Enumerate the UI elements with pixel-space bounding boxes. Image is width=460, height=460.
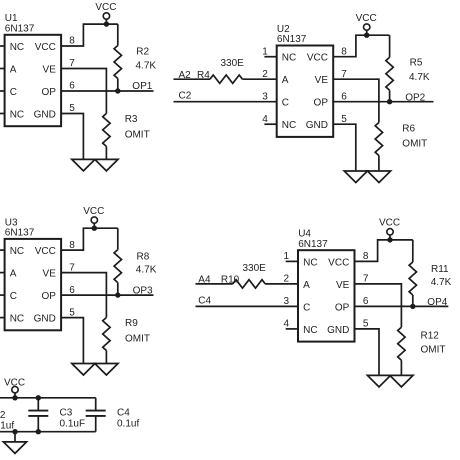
svg-text:6: 6 xyxy=(341,91,347,102)
svg-text:OP1: OP1 xyxy=(132,81,152,92)
wire pin 7 VE down (U1) xyxy=(61,69,106,114)
wire pin 6 OP4 net (U4) xyxy=(355,305,449,307)
svg-text:VE: VE xyxy=(43,269,57,280)
svg-text:NC: NC xyxy=(282,53,296,64)
wire to ground (caps) xyxy=(14,432,16,442)
svg-text:VCC: VCC xyxy=(328,257,349,268)
wire pin 5 to ground (U1) xyxy=(61,114,83,160)
wire pin 7 VE down (U4) xyxy=(355,284,402,327)
wire R6 to ground xyxy=(378,156,380,172)
svg-text:NC: NC xyxy=(10,109,24,120)
wire pin 8 to VCC rail (U2) xyxy=(333,35,389,57)
wire C4 input to pin 3 (U4) xyxy=(196,305,299,307)
svg-text:R6: R6 xyxy=(402,123,415,134)
wire pin 5 to ground (U4) xyxy=(355,329,380,376)
svg-text:A4: A4 xyxy=(198,275,211,286)
ground (R12) xyxy=(390,375,413,387)
wire GND rail (caps) xyxy=(0,431,96,433)
svg-text:8: 8 xyxy=(341,46,347,57)
ground (R3) xyxy=(95,159,118,171)
wire R3 to ground xyxy=(105,146,107,159)
svg-text:4.7K: 4.7K xyxy=(409,72,430,83)
junction R11/OP4 xyxy=(410,304,415,309)
wire VCC rail to R8 xyxy=(117,228,119,249)
svg-text:4.7K: 4.7K xyxy=(136,60,157,71)
svg-text:3: 3 xyxy=(262,91,268,102)
svg-text:C: C xyxy=(282,98,289,109)
optocoupler U4 6N137 body xyxy=(298,250,355,341)
power VCC symbol (U2) xyxy=(364,24,370,38)
svg-text:OP4: OP4 xyxy=(427,297,447,308)
wire R2 to OP1 node xyxy=(117,79,119,92)
svg-text:8: 8 xyxy=(363,251,369,262)
svg-text:R3: R3 xyxy=(125,114,138,125)
junction GND rail / ground xyxy=(12,429,17,434)
svg-text:GND: GND xyxy=(34,314,56,325)
capacitor C4 xyxy=(86,398,106,432)
resistor R2 body xyxy=(114,46,121,79)
svg-text:7: 7 xyxy=(363,274,369,285)
svg-text:6: 6 xyxy=(69,285,75,296)
svg-text:VCC: VCC xyxy=(83,206,104,217)
resistor R9 body xyxy=(103,318,110,351)
svg-text:OMIT: OMIT xyxy=(402,139,427,150)
resistor R10 body xyxy=(233,280,265,288)
wire pin 8 to VCC rail (U4) xyxy=(355,240,413,262)
wire R12 to ground xyxy=(400,360,402,375)
svg-text:330E: 330E xyxy=(243,263,267,274)
svg-text:A2: A2 xyxy=(179,70,192,81)
junction R5/OP2 xyxy=(387,99,392,104)
resistor R6 body xyxy=(375,123,382,156)
svg-text:VE: VE xyxy=(43,64,57,75)
svg-text:A: A xyxy=(10,269,17,280)
svg-text:R9: R9 xyxy=(125,318,138,329)
svg-text:7: 7 xyxy=(69,262,75,273)
wire R10 to pin 2 (U4) xyxy=(265,283,298,285)
svg-text:OMIT: OMIT xyxy=(125,333,150,344)
svg-text:2: 2 xyxy=(262,69,268,80)
svg-text:1: 1 xyxy=(284,251,290,262)
svg-text:C2: C2 xyxy=(0,410,6,421)
wire A4 input to R10 xyxy=(196,283,233,285)
svg-text:330E: 330E xyxy=(221,58,245,69)
svg-text:4.7K: 4.7K xyxy=(136,265,157,276)
power VCC symbol (U4) xyxy=(387,229,393,243)
svg-text:A: A xyxy=(303,280,310,291)
resistor R5 body xyxy=(386,57,393,90)
svg-text:0.1uf: 0.1uf xyxy=(117,419,139,430)
svg-text:C: C xyxy=(10,291,17,302)
junction R2/OP1 xyxy=(115,88,120,93)
svg-text:GND: GND xyxy=(34,109,56,120)
svg-text:7: 7 xyxy=(69,58,75,69)
wire pin 8 to VCC rail (U3) xyxy=(61,228,118,250)
power VCC symbol (caps) xyxy=(12,387,18,401)
svg-text:VCC: VCC xyxy=(35,42,56,53)
svg-text:C3: C3 xyxy=(60,408,73,419)
svg-text:C2: C2 xyxy=(179,91,192,102)
wire VCC rail to R5 xyxy=(389,35,391,57)
svg-text:5: 5 xyxy=(69,103,75,114)
svg-text:R2: R2 xyxy=(136,47,149,58)
svg-text:GND: GND xyxy=(306,120,328,131)
svg-text:VE: VE xyxy=(336,280,350,291)
svg-text:VCC: VCC xyxy=(379,218,400,229)
svg-text:6N137: 6N137 xyxy=(277,34,307,45)
wire pin 7 VE down (U3) xyxy=(61,273,106,318)
wire A2 input to R4 xyxy=(174,78,211,80)
svg-text:NC: NC xyxy=(282,120,296,131)
svg-text:8: 8 xyxy=(69,240,75,251)
svg-text:A: A xyxy=(10,64,17,75)
wire pin 1 stub (U3) xyxy=(0,249,5,251)
svg-text:GND: GND xyxy=(327,325,349,336)
wire VCC rail to R2 xyxy=(117,24,119,45)
optocoupler U2 6N137 body xyxy=(277,46,334,137)
wire pin 4 stub (U1) xyxy=(0,113,5,115)
wire pin 5 to ground (U3) xyxy=(61,318,83,364)
svg-text:3: 3 xyxy=(284,296,290,307)
svg-text:R11: R11 xyxy=(431,264,449,275)
svg-text:NC: NC xyxy=(303,257,317,268)
ground (caps) xyxy=(3,442,26,454)
svg-text:VCC: VCC xyxy=(356,13,377,24)
svg-text:4.7K: 4.7K xyxy=(431,277,452,288)
svg-text:OP: OP xyxy=(314,98,329,109)
svg-text:4: 4 xyxy=(284,319,290,330)
wire pin 3 stub (U3) xyxy=(0,294,5,296)
svg-text:NC: NC xyxy=(303,325,317,336)
wire pin 1 stub (U4) xyxy=(286,260,298,262)
svg-text:OP3: OP3 xyxy=(133,285,153,296)
svg-text:6: 6 xyxy=(69,81,75,92)
wire pin 8 to VCC rail (U1) xyxy=(61,24,118,46)
junction C3 top xyxy=(36,395,41,400)
junction R8/OP3 xyxy=(115,292,120,297)
svg-text:C: C xyxy=(303,302,310,313)
svg-text:VCC: VCC xyxy=(4,378,25,389)
wire pin 3 stub (U1) xyxy=(0,90,5,92)
svg-text:OP2: OP2 xyxy=(405,92,425,103)
resistor R3 body xyxy=(103,113,110,146)
svg-text:R4: R4 xyxy=(197,70,210,81)
wire pin 5 to ground (U2) xyxy=(333,124,356,171)
ground (U2 pin5) xyxy=(344,171,367,183)
wire pin 2 stub (U1) xyxy=(0,68,5,70)
svg-text:5: 5 xyxy=(363,319,369,330)
junction C3 bottom xyxy=(36,429,41,434)
svg-text:6N137: 6N137 xyxy=(5,24,35,35)
power VCC symbol (U1) xyxy=(103,13,109,27)
ground (R6) xyxy=(367,171,390,183)
wire R8 to OP3 node xyxy=(117,283,119,296)
svg-text:2: 2 xyxy=(284,274,290,285)
svg-text:OMIT: OMIT xyxy=(421,345,446,356)
svg-text:OP: OP xyxy=(41,291,56,302)
svg-text:VCC: VCC xyxy=(95,2,116,13)
svg-text:A: A xyxy=(282,75,289,86)
wire R5 to OP2 node xyxy=(389,90,391,101)
wire pin 1 stub (U2) xyxy=(264,56,276,58)
wire pin 4 stub (U2) xyxy=(264,123,276,125)
resistor R4 body xyxy=(210,75,242,83)
wire pin 6 OP3 net (U3) xyxy=(61,294,153,296)
svg-text:8: 8 xyxy=(69,36,75,47)
wire pin 7 VE down (U2) xyxy=(333,79,379,122)
power VCC symbol (U3) xyxy=(91,217,97,231)
ground (U1 pin5) xyxy=(72,159,95,171)
wire pin 6 OP1 net (U1) xyxy=(61,90,153,92)
svg-text:6N137: 6N137 xyxy=(298,239,328,250)
capacitor C3 xyxy=(28,398,48,432)
ground (U4 pin5) xyxy=(367,375,390,387)
wire R11 to OP4 node xyxy=(412,295,414,306)
wire VCC rail to R11 xyxy=(412,240,414,262)
svg-text:NC: NC xyxy=(10,314,24,325)
svg-text:6N137: 6N137 xyxy=(5,228,35,239)
wire C2 input to pin 3 (U2) xyxy=(174,101,277,103)
wire pin 4 stub (U3) xyxy=(0,317,5,319)
optocoupler U1 6N137 body xyxy=(5,35,62,126)
svg-text:4: 4 xyxy=(262,114,268,125)
ground (R9) xyxy=(95,364,118,376)
resistor R8 body xyxy=(114,250,121,283)
svg-text:OP: OP xyxy=(41,87,56,98)
ground (U3 pin5) xyxy=(72,364,95,376)
svg-text:0.1uf: 0.1uf xyxy=(0,421,14,432)
svg-text:5: 5 xyxy=(341,114,347,125)
wire R9 to ground xyxy=(105,351,107,364)
svg-text:VCC: VCC xyxy=(35,246,56,257)
svg-text:1: 1 xyxy=(262,46,268,57)
svg-text:NC: NC xyxy=(10,246,24,257)
resistor R12 body xyxy=(398,327,405,360)
svg-text:C4: C4 xyxy=(117,408,130,419)
wire VCC rail (caps) xyxy=(0,397,96,399)
wire pin 2 stub (U3) xyxy=(0,272,5,274)
svg-text:5: 5 xyxy=(69,307,75,318)
svg-text:VCC: VCC xyxy=(307,53,328,64)
svg-text:R5: R5 xyxy=(410,58,423,69)
svg-text:6: 6 xyxy=(363,296,369,307)
wire pin 1 stub (U1) xyxy=(0,45,5,47)
svg-text:R12: R12 xyxy=(421,330,440,341)
svg-text:0.1uF: 0.1uF xyxy=(60,419,86,430)
svg-text:C4: C4 xyxy=(198,295,211,306)
svg-text:OP: OP xyxy=(335,302,350,313)
wire pin 6 OP2 net (U2) xyxy=(333,101,433,103)
svg-text:R8: R8 xyxy=(137,251,150,262)
svg-text:R10: R10 xyxy=(221,275,240,286)
wire R4 to pin 2 (U2) xyxy=(242,78,276,80)
svg-text:OMIT: OMIT xyxy=(125,129,150,140)
svg-text:NC: NC xyxy=(10,42,24,53)
svg-text:VE: VE xyxy=(315,75,329,86)
svg-text:C: C xyxy=(10,87,17,98)
svg-text:7: 7 xyxy=(341,69,347,80)
wire pin 4 stub (U4) xyxy=(286,328,298,330)
resistor R11 body xyxy=(409,262,416,295)
optocoupler U3 6N137 body xyxy=(5,239,62,330)
